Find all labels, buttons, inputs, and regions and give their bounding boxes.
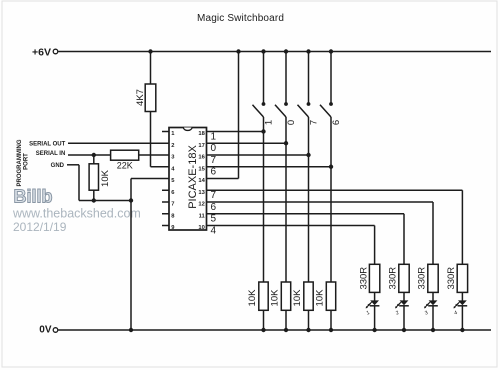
svg-text:Magic Switchboard: Magic Switchboard [197,13,284,24]
wire 10K to GND wire [93,190,95,200]
LED 4 [453,300,467,308]
svg-text:1: 1 [211,131,217,142]
resistor 330R 3 body [428,264,438,292]
svg-text:16: 16 [198,155,205,161]
wire 330R 1 to LED 1 [374,292,376,300]
svg-text:PROGRAMMING: PROGRAMMING [17,139,23,186]
junction 10K pulldown 3 / 0V rail [306,328,310,332]
wire 330R 2 to LED 2 [403,292,405,300]
junction 10K pulldown 4 / 0V rail [329,328,333,332]
resistor 4K7 body [145,84,156,112]
junction switch 7 / input wire [306,153,310,157]
junction +6V rail / switch 7 [306,49,310,53]
resistor 10K programming body [89,164,98,190]
wire 10K pulldown 4 to 0V rail [330,310,332,330]
pin 7 [162,202,174,208]
wire 330R 3 to LED 3 [432,292,434,300]
node +6V terminal [32,46,58,58]
svg-text:330R: 330R [388,267,399,290]
resistor 10K pulldown 2 body [281,282,290,310]
LED 3 [424,300,438,308]
pin 5 [171,178,175,184]
wire LED 2 to 0V rail [403,306,405,330]
wire LED 3 to 0V rail [432,306,434,330]
svg-text:SERIAL OUT: SERIAL OUT [29,141,66,147]
resistor 10K pulldown 1 body [259,282,268,310]
wire GND elbow [67,165,131,201]
node 0V terminal [39,325,58,336]
junction switch 1 / input wire [261,129,265,133]
svg-text:Billb: Billb [14,187,53,207]
junction +6V rail / switch 0 [284,49,288,53]
svg-text:4: 4 [211,225,217,236]
label PROGRAMMING PORT [17,139,29,186]
IC notch [183,128,192,131]
svg-text:2: 2 [171,143,174,149]
resistor 330R 2 body [399,264,409,292]
junction pin14 riser / +6V rail [236,49,240,53]
svg-text:+6V: +6V [32,46,51,58]
pin 8 [162,213,175,219]
pin 2 [171,143,174,149]
resistor 22K body [111,150,139,160]
junction switch 6 / input wire [329,165,333,169]
LED 1 [366,300,380,308]
svg-text:18: 18 [198,131,205,137]
switch 7 lever [298,105,309,117]
junction +6V rail / 4K7 [148,49,152,53]
svg-text:10K: 10K [270,289,281,307]
pin 1 [162,131,175,137]
wire +6V rail [58,51,491,53]
junction SERIAL IN / 10K [92,153,96,157]
switch 6 contact [329,102,333,106]
wire IC output 5 to LED branch [207,214,405,265]
junction LED 3 / 0V rail [431,328,435,332]
junction 10K pulldown 1 / 0V rail [261,328,265,332]
wire IC output 6 to LED branch [207,202,434,264]
wire switch 0 down column [285,117,287,282]
wire 330R 4 to LED 4 [461,292,463,300]
junction GND net / 0V rail [129,328,133,332]
switch 1 lever [253,105,264,117]
LED 2 [395,300,409,308]
junction LED 4 / 0V rail [460,328,464,332]
resistor 330R 4 body [457,264,467,292]
pin 3 [171,155,175,161]
switch 1 contact [262,102,266,106]
wire pin 5 to GND net [131,179,169,201]
svg-text:330R: 330R [358,267,369,290]
wire 22K to pin 3 [139,154,169,156]
svg-text:10K: 10K [100,169,111,187]
junction GND net [129,198,133,202]
wire +6V to switch 0 [285,52,287,105]
switch 7 contact [307,102,311,106]
svg-text:17: 17 [198,143,204,149]
svg-text:7: 7 [171,202,174,208]
switch 6 lever [320,105,331,117]
svg-text:15: 15 [198,166,205,172]
wire IC pin to switch 7 column [207,154,309,156]
switch 0 contact [284,102,288,106]
svg-text:7: 7 [308,120,319,125]
svg-text:6: 6 [211,202,217,213]
svg-text:330R: 330R [417,267,428,290]
svg-text:22K: 22K [117,161,133,171]
svg-text:6: 6 [331,120,342,125]
svg-text:2012/1/19: 2012/1/19 [13,220,67,234]
wire IC pin to switch 6 column [207,166,332,168]
svg-text:10: 10 [198,225,204,231]
wire SERIAL IN to 22K [68,154,111,156]
junction 10K pulldown 2 / 0V rail [284,328,288,332]
svg-text:SERIAL IN: SERIAL IN [36,151,66,157]
junction switch 0 / input wire [284,141,288,145]
wire LED 4 to 0V rail [461,306,463,330]
wire +6V to switch 1 [263,52,265,105]
wire +6V to switch 7 [308,52,310,105]
resistor 10K pulldown 3 body [304,282,313,310]
resistor 10K pulldown 4 body [326,282,335,310]
wire IC pin to switch 1 column [207,131,264,133]
wire 4K7 to IC pin 4 [151,112,170,167]
wire switch 1 down column [263,117,265,282]
svg-text:0V: 0V [39,325,52,336]
svg-text:14: 14 [198,178,205,184]
svg-text:PORT: PORT [23,153,29,170]
svg-text:1: 1 [263,120,274,125]
svg-text:11: 11 [199,213,206,219]
svg-text:0: 0 [211,143,217,154]
svg-text:5: 5 [211,214,217,225]
wire LED 1 to 0V rail [374,306,376,330]
wire pin 14 to +6V rail [207,52,239,179]
svg-text:6: 6 [211,167,217,178]
svg-text:10K: 10K [247,289,258,307]
watermark text Billb / www.thebackshed.com / 2012/1/19 [12,187,141,234]
svg-text:13: 13 [198,190,205,196]
svg-text:10K: 10K [315,289,326,307]
junction +6V rail / switch 1 [261,49,265,53]
junction 10K / GND wire [92,198,96,202]
junction LED 1 / 0V rail [372,328,376,332]
svg-text:12: 12 [198,202,204,208]
wire 0V rail [58,329,491,331]
wire +6V to 4K7 [150,52,152,85]
wire SERIAL IN junction to 10K [93,155,95,164]
svg-text:7: 7 [211,155,217,166]
IC PICAXE-18X body [169,128,207,231]
junction +6V rail / switch 6 [329,49,333,53]
wire IC pin to switch 0 column [207,142,287,144]
pin 9 [162,225,175,231]
junction LED 2 / 0V rail [402,328,406,332]
wire 10K pulldown 1 to 0V rail [263,310,265,330]
svg-text:PICAXE-18X: PICAXE-18X [187,145,199,209]
wire switch 7 down column [308,117,310,282]
wire SERIAL OUT to pin 2 [68,142,169,144]
resistor 330R 1 body [369,264,379,292]
pin 6 [162,190,175,196]
wire 10K pulldown 2 to 0V rail [285,310,287,330]
switch 0 lever [275,105,286,117]
svg-text:www.thebackshed.com: www.thebackshed.com [12,207,141,221]
svg-text:330R: 330R [446,267,457,290]
svg-text:10K: 10K [292,289,303,307]
wire switch 6 down column [330,117,332,282]
wire GND net to 0V rail [130,201,132,331]
pin 4 [171,166,175,172]
svg-text:0: 0 [286,120,297,125]
svg-text:7: 7 [211,190,217,201]
svg-text:GND: GND [51,163,65,169]
svg-text:4K7: 4K7 [135,89,146,106]
wire +6V to switch 6 [330,52,332,105]
wire 10K pulldown 3 to 0V rail [308,310,310,330]
wire IC output 4 to LED branch [207,226,375,265]
wire IC output 7 to LED branch [207,190,463,264]
